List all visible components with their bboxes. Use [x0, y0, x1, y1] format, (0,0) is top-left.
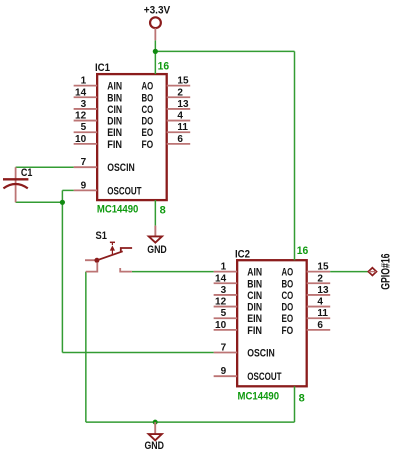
svg-text:7: 7	[221, 343, 227, 354]
svg-text:14: 14	[75, 87, 87, 98]
svg-text:11: 11	[177, 122, 188, 133]
svg-text:13: 13	[317, 285, 329, 296]
svg-text:GND: GND	[144, 440, 164, 452]
svg-text:DO: DO	[281, 302, 293, 314]
svg-text:CO: CO	[141, 104, 153, 116]
svg-text:10: 10	[215, 320, 227, 331]
svg-text:BO: BO	[141, 92, 153, 104]
svg-text:BO: BO	[281, 278, 293, 290]
svg-text:GPIO#16: GPIO#16	[379, 253, 393, 290]
svg-text:MC14490: MC14490	[97, 204, 139, 216]
svg-text:15: 15	[317, 262, 329, 273]
svg-text:10: 10	[75, 134, 87, 145]
svg-text:+3.3V: +3.3V	[144, 5, 171, 17]
svg-text:EIN: EIN	[107, 127, 122, 139]
svg-text:FO: FO	[281, 325, 293, 337]
svg-text:FIN: FIN	[107, 139, 122, 151]
svg-text:12: 12	[215, 297, 227, 308]
svg-text:AIN: AIN	[107, 81, 122, 93]
svg-text:11: 11	[317, 308, 328, 319]
svg-text:C1: C1	[21, 167, 33, 179]
svg-text:IC1: IC1	[95, 62, 110, 74]
svg-text:CIN: CIN	[247, 290, 262, 302]
svg-text:9: 9	[81, 180, 87, 191]
svg-text:AO: AO	[281, 267, 293, 279]
svg-text:2: 2	[177, 87, 183, 98]
svg-text:4: 4	[317, 297, 323, 308]
svg-text:S1: S1	[96, 230, 107, 242]
svg-text:16: 16	[158, 61, 170, 73]
svg-text:3: 3	[81, 99, 87, 110]
svg-text:6: 6	[317, 320, 323, 331]
svg-text:16: 16	[297, 245, 309, 257]
svg-text:BIN: BIN	[247, 278, 262, 290]
svg-text:BIN: BIN	[107, 92, 122, 104]
svg-text:CIN: CIN	[107, 104, 122, 116]
svg-text:DIN: DIN	[107, 116, 122, 128]
svg-text:OSCOUT: OSCOUT	[107, 185, 142, 197]
svg-text:CO: CO	[281, 290, 293, 302]
svg-text:IC2: IC2	[235, 248, 250, 260]
svg-text:8: 8	[299, 392, 305, 404]
svg-text:7: 7	[81, 157, 87, 168]
svg-text:DIN: DIN	[247, 302, 262, 314]
svg-text:EO: EO	[281, 313, 293, 325]
svg-text:9: 9	[221, 366, 227, 377]
svg-text:1: 1	[81, 76, 87, 87]
svg-text:EO: EO	[141, 127, 153, 139]
svg-text:AO: AO	[141, 81, 153, 93]
svg-text:13: 13	[177, 99, 189, 110]
svg-text:OSCOUT: OSCOUT	[247, 371, 282, 383]
svg-text:3: 3	[221, 285, 227, 296]
svg-text:GND: GND	[147, 244, 167, 256]
svg-text:15: 15	[177, 76, 189, 87]
svg-text:AIN: AIN	[247, 267, 262, 279]
svg-text:FO: FO	[141, 139, 153, 151]
svg-text:FIN: FIN	[247, 325, 262, 337]
svg-text:5: 5	[81, 122, 87, 133]
svg-text:12: 12	[75, 111, 87, 122]
svg-text:OSCIN: OSCIN	[107, 162, 135, 174]
svg-text:MC14490: MC14490	[238, 391, 279, 403]
svg-text:EIN: EIN	[247, 313, 262, 325]
svg-text:1: 1	[221, 262, 227, 273]
svg-text:OSCIN: OSCIN	[247, 348, 275, 360]
svg-text:14: 14	[215, 273, 227, 284]
svg-text:2: 2	[317, 273, 323, 284]
svg-text:8: 8	[160, 205, 166, 217]
svg-text:DO: DO	[141, 116, 153, 128]
svg-text:6: 6	[177, 134, 183, 145]
svg-text:5: 5	[221, 308, 227, 319]
svg-text:4: 4	[177, 111, 183, 122]
